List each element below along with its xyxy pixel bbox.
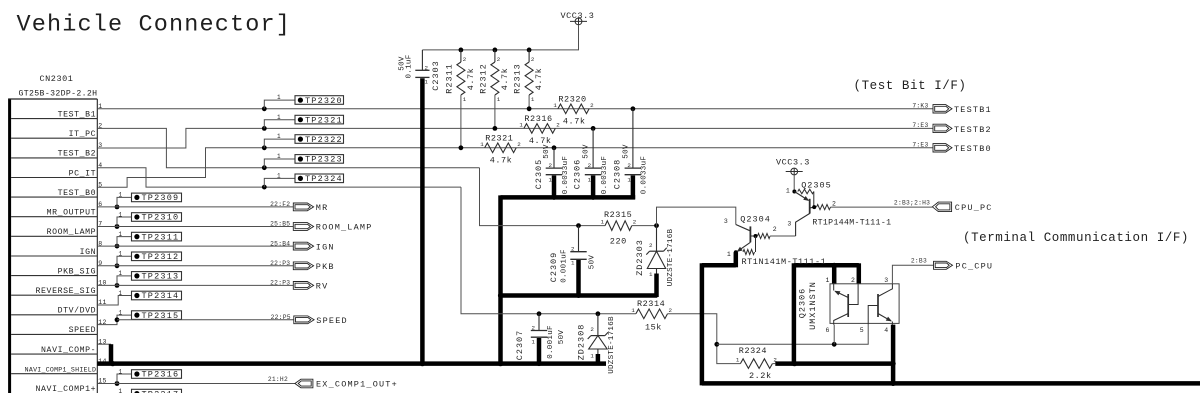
svg-text:R2313: R2313 (513, 63, 523, 94)
svg-text:1: 1 (590, 353, 594, 360)
svg-text:1: 1 (119, 192, 123, 199)
wire R2314 to junction (668, 314, 741, 364)
Q2306 pin6 lead (833, 325, 835, 345)
svg-text:2: 2 (669, 307, 673, 314)
svg-text:0.1uF: 0.1uF (405, 54, 413, 78)
test point TP2324 (262, 185, 267, 190)
svg-text:50V: 50V (543, 144, 551, 159)
svg-text:NAVI_COMP-: NAVI_COMP- (41, 346, 96, 355)
svg-text:3: 3 (787, 221, 791, 228)
svg-text:IT_PC: IT_PC (69, 130, 97, 139)
svg-text:1: 1 (119, 231, 123, 238)
svg-text:1: 1 (571, 260, 575, 267)
svg-text:4: 4 (884, 327, 888, 334)
svg-text:MR_OUTPUT: MR_OUTPUT (47, 209, 97, 218)
svg-text:2: 2 (773, 226, 777, 233)
wire net TEST_B2 jog to row2 (97, 128, 933, 148)
svg-text:1: 1 (119, 211, 123, 218)
svg-text:50V: 50V (622, 144, 630, 159)
svg-text:TP2312: TP2312 (142, 252, 180, 262)
svg-text:EX_COMP1_OUT+: EX_COMP1_OUT+ (316, 380, 398, 390)
svg-text:CN2301: CN2301 (40, 74, 74, 84)
svg-text:TP2324: TP2324 (305, 174, 343, 184)
svg-text:TESTB0: TESTB0 (954, 144, 992, 154)
svg-text:4.7k: 4.7k (490, 155, 513, 165)
test point TP2317 (cut off at bottom) (132, 389, 182, 398)
Q2306 T2 (right, collector to pin3) (877, 294, 879, 317)
svg-text:VCC3.3: VCC3.3 (776, 157, 810, 167)
svg-text:2.2k: 2.2k (749, 371, 772, 381)
svg-text:2: 2 (633, 219, 637, 226)
test point TP2320 (262, 106, 267, 111)
emitter ground segment B (Q2306 pins 1,2) (792, 263, 797, 365)
svg-text:1: 1 (786, 187, 790, 194)
svg-text:50V: 50V (583, 144, 591, 159)
test point TP2313 (115, 283, 120, 288)
wire node to Q2304 collector (657, 207, 736, 226)
svg-text:REVERSE_SIG: REVERSE_SIG (36, 287, 97, 296)
svg-text:1: 1 (425, 79, 429, 86)
svg-text:2: 2 (556, 121, 560, 128)
svg-text:0.0033uF: 0.0033uF (562, 156, 570, 194)
svg-text:1: 1 (119, 251, 123, 258)
wire SPEED to flag (117, 319, 294, 321)
svg-text:2: 2 (532, 324, 536, 331)
svg-text:7:E3: 7:E3 (912, 122, 928, 129)
svg-text:TP2309: TP2309 (142, 193, 180, 203)
ground drop Q2304 emitter bus (700, 263, 705, 385)
svg-text:220: 220 (610, 236, 627, 246)
wire NAVI_COMP- pin13 to shield bus (97, 343, 111, 345)
svg-text:TP2314: TP2314 (142, 291, 180, 301)
test point TP2323 (262, 165, 267, 170)
svg-text:NAVI_COMP1_SHIELD: NAVI_COMP1_SHIELD (25, 367, 97, 374)
svg-text:2: 2 (425, 64, 429, 71)
svg-text:50V: 50V (558, 330, 566, 345)
resistor R2311 4.7k (460, 50, 462, 62)
svg-text:1: 1 (119, 309, 123, 316)
svg-text:Q2304: Q2304 (740, 214, 771, 224)
svg-text:1: 1 (463, 96, 467, 103)
svg-text:TEST_B1: TEST_B1 (58, 110, 97, 119)
svg-text:GT25B-32DP-2.2H: GT25B-32DP-2.2H (19, 90, 98, 99)
ground bus dot at C2303 column (420, 361, 425, 366)
svg-text:6: 6 (826, 327, 830, 334)
svg-text:TP2317: TP2317 (142, 389, 180, 393)
svg-text:RT1P144M-T111-1: RT1P144M-T111-1 (812, 218, 891, 227)
svg-text:25:B4: 25:B4 (270, 240, 290, 247)
svg-text:C2307: C2307 (515, 330, 525, 361)
svg-text:5: 5 (860, 327, 864, 334)
svg-text:1: 1 (532, 339, 536, 346)
test point TP2314 on DTV/DVD pin 11 (97, 296, 131, 306)
svg-text:SPEED: SPEED (316, 316, 348, 326)
shield ground bus from pin14 (97, 361, 606, 366)
svg-text:3: 3 (884, 277, 888, 284)
wire R2324 pin2 to ground segment (772, 363, 775, 365)
VCC3.3 power symbol (top) (575, 18, 582, 25)
capacitor C2307 0.001uF 50V (537, 311, 542, 316)
svg-text:0.001uF: 0.001uF (547, 325, 555, 359)
svg-text:1: 1 (588, 176, 592, 183)
svg-text:2: 2 (851, 277, 855, 284)
test point TP2322 (262, 145, 267, 150)
wire net PC_IT jog to row5 (97, 168, 461, 187)
svg-text:R2314: R2314 (637, 299, 665, 309)
zener diode ZD2303 UDZSTE-1716B (656, 226, 658, 252)
svg-text:22:F2: 22:F2 (270, 201, 290, 208)
svg-text:UDZSTE-1716B: UDZSTE-1716B (667, 228, 675, 286)
resistor R2324 2.2k (740, 359, 772, 369)
capacitor C2309 0.001uF 50V (576, 223, 581, 228)
svg-text:1: 1 (631, 307, 635, 314)
svg-text:4.7k: 4.7k (563, 116, 586, 126)
svg-text:50V: 50V (589, 255, 597, 270)
svg-text:CPU_PC: CPU_PC (955, 203, 993, 213)
svg-text:R2321: R2321 (485, 133, 513, 143)
svg-text:TP2322: TP2322 (305, 135, 343, 145)
svg-text:1: 1 (277, 114, 281, 121)
capacitor C2308 0.0033uF (631, 106, 636, 111)
wire net TEST_B0 jog to row3 (97, 148, 933, 188)
svg-text:Q2305: Q2305 (801, 180, 832, 190)
ground bus under caps (501, 195, 636, 200)
svg-text:TESTB1: TESTB1 (954, 105, 992, 115)
wire MR_OUTPUT row (97, 206, 293, 208)
svg-text:1: 1 (277, 153, 281, 160)
zener diode ZD2308 UDZSTE-1716B (596, 311, 601, 316)
capacitor C2306 0.0033uF (591, 126, 596, 131)
svg-text:15k: 15k (645, 322, 662, 332)
svg-text:2: 2 (497, 56, 501, 63)
svg-text:2: 2 (571, 246, 575, 253)
svg-text:TP2323: TP2323 (305, 155, 343, 165)
svg-text:0.0033uF: 0.0033uF (601, 156, 609, 194)
wire net TEST_B1 row1 (97, 108, 933, 110)
svg-text:IGN: IGN (316, 242, 335, 252)
test point TP2321 (262, 126, 267, 131)
svg-text:1: 1 (531, 96, 535, 103)
svg-text:R2315: R2315 (604, 210, 632, 220)
svg-text:7:K3: 7:K3 (912, 102, 928, 109)
svg-text:1: 1 (497, 96, 501, 103)
connector CN2301 body (8, 99, 11, 393)
svg-text:21:H2: 21:H2 (268, 376, 288, 383)
svg-text:TP2310: TP2310 (142, 213, 180, 223)
svg-text:1: 1 (736, 357, 740, 364)
svg-text:1: 1 (553, 102, 557, 109)
svg-text:IGN: IGN (80, 248, 97, 257)
svg-text:1: 1 (627, 176, 631, 183)
test point TP2315 on SPEED pin 12 (97, 315, 131, 325)
pin4 ground drop of Q2306 (891, 325, 896, 384)
svg-text:TESTB2: TESTB2 (954, 125, 992, 135)
test point TP2309 (115, 205, 120, 210)
svg-text:R2312: R2312 (478, 63, 488, 94)
wire IGN row (97, 245, 293, 247)
svg-text:1: 1 (119, 388, 123, 393)
svg-text:PC_CPU: PC_CPU (955, 262, 993, 272)
wire Q2306 pin3 to PC_CPU (892, 265, 933, 284)
VCC3.3 power symbol (Q2305) (791, 168, 798, 175)
capacitor C2303 0.1uF 50V (421, 50, 423, 70)
Q2306 T1 (left, emitter to pin1) (833, 284, 835, 291)
resistor R2314 15k (636, 309, 668, 319)
svg-text:ZD2303: ZD2303 (635, 239, 645, 276)
wire row4 drop to R2315 line (480, 168, 579, 226)
test point TP2310 (115, 224, 120, 229)
svg-text:R2324: R2324 (739, 346, 767, 356)
wire PKB_SIG row (97, 265, 293, 267)
test point TP2311 (115, 244, 120, 249)
svg-text:1: 1 (649, 271, 653, 278)
svg-text:2: 2 (517, 141, 521, 148)
svg-text:2: 2 (463, 56, 467, 63)
wire row5 drop to R2314 line (461, 187, 636, 314)
svg-text:PKB: PKB (316, 262, 335, 272)
mid ground bus for C2309/ZD2303 (501, 293, 658, 298)
resistor R2315 220 (605, 221, 632, 231)
svg-text:C2305: C2305 (534, 159, 544, 190)
svg-text:0.001uF: 0.001uF (561, 249, 569, 283)
wire R2315 to node (632, 225, 657, 227)
svg-text:TP2311: TP2311 (142, 232, 180, 242)
wire REVERSE_SIG row (97, 284, 293, 286)
wire Q2305 collector to CPU_PC (831, 206, 933, 208)
resistor R2320 4.7k (558, 104, 589, 114)
resistor R2312 4.7k (494, 50, 496, 62)
wire VCC rail (422, 25, 578, 50)
svg-text:MR: MR (316, 203, 329, 213)
svg-text:DTV/DVD: DTV/DVD (58, 306, 97, 316)
resistor R2313 4.7k (528, 50, 530, 62)
svg-text:4.7k: 4.7k (466, 68, 476, 91)
svg-text:PC_IT: PC_IT (69, 169, 97, 178)
svg-text:1: 1 (826, 277, 830, 284)
svg-text:2: 2 (832, 200, 836, 207)
svg-text:NAVI_COMP1+: NAVI_COMP1+ (36, 385, 97, 393)
svg-text:ROOM_LAMP: ROOM_LAMP (316, 223, 373, 233)
svg-text:1: 1 (277, 94, 281, 101)
svg-text:UDZSTE-1716B: UDZSTE-1716B (608, 316, 616, 374)
svg-text:22:P5: 22:P5 (271, 314, 291, 321)
wire junction to Q2306 pins 5/6 (717, 325, 868, 345)
svg-text:(Terminal Communication I/F): (Terminal Communication I/F) (963, 231, 1189, 245)
svg-text:ROOM_LAMP: ROOM_LAMP (47, 228, 97, 237)
wire ROOM_LAMP row (97, 226, 293, 228)
test point TP2316 on NAVI_COMP1+ pin 15 (115, 381, 120, 386)
svg-text:R2316: R2316 (524, 114, 552, 124)
svg-text:R2320: R2320 (558, 94, 586, 104)
resistor R2316 4.7k (524, 124, 555, 134)
svg-text:2: 2 (549, 162, 553, 169)
svg-text:C2306: C2306 (573, 159, 583, 190)
svg-text:22:P3: 22:P3 (270, 260, 290, 267)
svg-text:2:B3: 2:B3 (911, 257, 927, 264)
svg-text:R2311: R2311 (444, 63, 454, 94)
svg-text:1: 1 (119, 368, 123, 375)
svg-text:1: 1 (727, 251, 731, 258)
svg-text:4.7k: 4.7k (534, 68, 544, 91)
svg-text:C2309: C2309 (549, 252, 559, 283)
svg-text:22:P3: 22:P3 (270, 280, 290, 287)
wire net IT_PC jog to row4 (97, 128, 479, 167)
wire NAVI_COMP1+ to flag (97, 383, 295, 385)
svg-text:TP2313: TP2313 (142, 272, 180, 282)
svg-text:2: 2 (590, 102, 594, 109)
svg-text:1: 1 (601, 219, 605, 226)
svg-text:4.7k: 4.7k (500, 68, 510, 91)
svg-text:C2308: C2308 (612, 159, 622, 190)
svg-text:1: 1 (277, 173, 281, 180)
svg-text:2: 2 (649, 242, 653, 249)
test point TP2312 (115, 263, 120, 268)
svg-text:1: 1 (480, 141, 484, 148)
ground bottom bus (702, 381, 1200, 386)
svg-text:C2303: C2303 (431, 60, 441, 91)
svg-text:SPEED: SPEED (69, 326, 97, 335)
svg-text:0.0033uF: 0.0033uF (640, 156, 648, 194)
svg-text:25:B5: 25:B5 (270, 221, 290, 228)
svg-text:2: 2 (627, 162, 631, 169)
capacitor C2305 0.0033uF (552, 145, 557, 150)
Q2305 base path (796, 213, 810, 236)
svg-text:1: 1 (549, 176, 553, 183)
svg-text:Vehicle Connector]: Vehicle Connector] (17, 12, 292, 39)
svg-text:1: 1 (277, 133, 281, 140)
svg-text:TEST_B2: TEST_B2 (58, 150, 97, 159)
svg-text:TP2321: TP2321 (305, 115, 343, 125)
svg-text:2: 2 (588, 162, 592, 169)
svg-text:RT1N141M-T111-1: RT1N141M-T111-1 (742, 257, 827, 267)
svg-text:UMX1NSTN: UMX1NSTN (808, 281, 818, 330)
svg-text:1: 1 (119, 290, 123, 297)
svg-text:2: 2 (531, 56, 535, 63)
svg-text:1: 1 (519, 121, 523, 128)
svg-text:RV: RV (316, 282, 329, 292)
svg-text:1: 1 (119, 270, 123, 277)
svg-text:PKB_SIG: PKB_SIG (58, 267, 97, 276)
svg-text:TEST_B0: TEST_B0 (58, 189, 97, 198)
svg-text:TP2320: TP2320 (305, 96, 343, 106)
ground bus drop to mid bus (498, 195, 503, 365)
svg-text:TP2316: TP2316 (142, 370, 180, 380)
svg-text:7:E3: 7:E3 (912, 141, 928, 148)
resistor R2321 4.7k (485, 143, 517, 153)
svg-text:2:B3;2:H3: 2:B3;2:H3 (894, 199, 930, 206)
emitter ground segment A (702, 263, 736, 268)
svg-text:VCC3.3: VCC3.3 (561, 11, 595, 21)
svg-text:2: 2 (590, 326, 594, 333)
svg-text:3: 3 (724, 218, 728, 225)
svg-text:ZD2308: ZD2308 (577, 324, 587, 361)
svg-text:Q2306: Q2306 (797, 288, 807, 319)
svg-text:(Test Bit I/F): (Test Bit I/F) (854, 79, 967, 93)
